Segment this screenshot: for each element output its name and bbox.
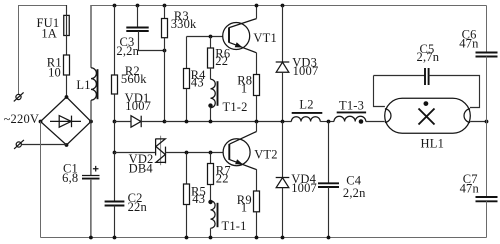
node rail VD3 top bbox=[281, 4, 285, 8]
node T1-2 bus bbox=[209, 120, 213, 124]
wire top-left mains horizontal bbox=[18, 5, 67, 7]
wire R6 to T1-2 bbox=[210, 68, 212, 79]
node R5 rail bbox=[185, 236, 189, 240]
label R3 330k bbox=[171, 9, 197, 31]
node T1-1 rail bbox=[209, 236, 213, 240]
node A2 diac junction bbox=[113, 151, 117, 155]
wire VT2 collector to bus bbox=[256, 122, 258, 132]
node C4 bus bbox=[327, 120, 331, 124]
svg-text:47n: 47n bbox=[460, 181, 480, 195]
svg-text:1007: 1007 bbox=[291, 181, 317, 195]
label R2 560k bbox=[121, 64, 147, 86]
wire C4 to rail bbox=[328, 187, 330, 238]
node T1-2 phase dot bbox=[208, 103, 212, 107]
node lamp right rail bbox=[485, 120, 489, 124]
node rail R3 top bbox=[163, 4, 167, 8]
label VD3 1007 bbox=[292, 55, 318, 78]
svg-text:DB4: DB4 bbox=[129, 161, 154, 175]
node T1-1 phase dot bbox=[208, 200, 212, 204]
wire C5 loop right bbox=[429, 76, 480, 108]
svg-text:VT2: VT2 bbox=[254, 147, 278, 161]
label FU1 1A bbox=[36, 16, 59, 40]
resistor R8 bbox=[254, 75, 260, 96]
wire rail to VD3 bbox=[282, 6, 284, 63]
wire bottom terminal to bridge bbox=[21, 144, 66, 146]
label C6 47n bbox=[459, 28, 479, 51]
svg-text:47n: 47n bbox=[459, 36, 479, 50]
winding T1-2 bbox=[211, 79, 218, 108]
inductor L1 bbox=[91, 68, 98, 100]
svg-text:2,2n: 2,2n bbox=[116, 44, 139, 58]
wire C2 bottom bbox=[114, 206, 116, 238]
diode VD3 bbox=[276, 62, 290, 72]
capacitor C3 bbox=[126, 28, 148, 32]
label R8 1 bbox=[237, 74, 252, 96]
svg-text:1007: 1007 bbox=[125, 99, 151, 113]
wire L2 to C4 node bbox=[320, 121, 334, 123]
label R7 22 bbox=[216, 164, 231, 186]
svg-text:2,7n: 2,7n bbox=[417, 50, 440, 64]
node C4 rail bbox=[327, 236, 331, 240]
wire right rail top bbox=[486, 6, 488, 53]
diode VD4 bbox=[276, 178, 290, 188]
wire R7 to T1-1 bbox=[210, 185, 212, 201]
wire R5 top bbox=[186, 153, 188, 185]
fuse FU1 bbox=[64, 15, 70, 35]
wire C5 loop left bbox=[374, 75, 426, 77]
capacitor C7 bbox=[476, 197, 498, 201]
transistor VT1 bbox=[223, 19, 257, 53]
wire VD3 to bus bbox=[282, 72, 284, 121]
capacitor C4 bbox=[318, 183, 339, 187]
svg-text:1A: 1A bbox=[41, 26, 57, 40]
wire FU1 top stub bbox=[66, 5, 68, 15]
label C4 2,2n bbox=[343, 174, 366, 200]
wire R8 to bus bbox=[256, 96, 258, 122]
wire VD4 to rail bbox=[282, 188, 284, 238]
node VD3 bus bbox=[281, 120, 285, 124]
wire midpoint bus bbox=[165, 121, 292, 123]
wire T1-3 to lamp bbox=[366, 121, 385, 123]
wire T1-2 to bus bbox=[210, 108, 212, 122]
node midpoint R8 bbox=[255, 120, 259, 124]
wire L1 to top rail bbox=[90, 5, 92, 68]
node base R5 junction bbox=[185, 151, 189, 155]
node C2 bottom rail bbox=[113, 236, 117, 240]
inductor L2 bbox=[291, 113, 322, 122]
node rail C3 top bbox=[136, 4, 140, 8]
svg-text:22: 22 bbox=[215, 54, 228, 68]
svg-text:T1-3: T1-3 bbox=[339, 99, 364, 113]
transistor VT2 bbox=[223, 132, 256, 170]
label VD4 1007 bbox=[291, 172, 317, 195]
svg-text:22: 22 bbox=[216, 171, 229, 185]
label R1 10 bbox=[47, 55, 62, 79]
wire T1-1 to rail bbox=[210, 228, 212, 237]
node bridge AC top bbox=[65, 95, 69, 99]
terminal input top bbox=[14, 92, 24, 101]
label R9 1 bbox=[237, 193, 252, 215]
wire C1 bottom bbox=[90, 180, 92, 238]
label R5 43 bbox=[191, 184, 206, 206]
label C2 22n bbox=[128, 191, 148, 214]
node R9 rail bbox=[255, 236, 259, 240]
svg-text:~220V: ~220V bbox=[4, 112, 40, 126]
wire VT2 emitter to R9 bbox=[256, 169, 258, 191]
wire R2 to node A bbox=[114, 94, 116, 122]
wire base to R6 bbox=[210, 37, 212, 49]
svg-text:330k: 330k bbox=[171, 17, 197, 31]
wire left input drop bbox=[18, 6, 20, 95]
wire C4 top bbox=[328, 122, 330, 184]
wire rail to R3 bbox=[164, 6, 166, 19]
node A VD1 anode bbox=[113, 120, 117, 124]
wire R7 top bbox=[210, 153, 212, 164]
node base R6 junction bbox=[209, 35, 213, 39]
capacitor C5 bbox=[425, 68, 429, 85]
resistor R9 bbox=[254, 191, 260, 212]
svg-text:L2: L2 bbox=[299, 97, 313, 111]
wire R9 to rail bbox=[256, 212, 258, 238]
node bridge DC minus bbox=[39, 120, 43, 124]
svg-text:22n: 22n bbox=[128, 200, 148, 214]
label C1 6,8 bbox=[62, 162, 78, 186]
resistor R6 bbox=[208, 48, 214, 68]
wire base to R4 bbox=[186, 37, 188, 69]
wire VT1 base bbox=[187, 36, 223, 38]
node R3 bus bbox=[163, 120, 167, 124]
node rail R2 top bbox=[113, 4, 117, 8]
svg-text:2,2n: 2,2n bbox=[343, 186, 366, 200]
wire FU1 to R1 bbox=[66, 36, 68, 56]
node VT1 collector rail bbox=[255, 4, 259, 8]
winding T1-1 bbox=[211, 201, 218, 229]
resistor R3 bbox=[162, 19, 168, 38]
capacitor C2 bbox=[105, 202, 125, 206]
wire node A down bbox=[114, 122, 116, 153]
node base R7 junction bbox=[209, 151, 213, 155]
wire C1 top bbox=[90, 122, 92, 176]
lamp HL1 bbox=[385, 98, 471, 133]
wire top plus rail bbox=[91, 5, 487, 7]
svg-text:1007: 1007 bbox=[293, 64, 319, 78]
wire bottom rail bbox=[41, 237, 487, 239]
resistor R1 bbox=[64, 55, 70, 75]
resistor R7 bbox=[208, 164, 214, 185]
label C3 2,2n bbox=[116, 35, 139, 58]
capacitor C6 bbox=[476, 53, 498, 57]
capacitor C1 bbox=[82, 166, 100, 179]
label VD1 1007 bbox=[125, 91, 152, 113]
wire right rail bottom bbox=[486, 201, 488, 237]
resistor R5 bbox=[184, 184, 190, 205]
terminal input bottom bbox=[14, 140, 24, 149]
node bridge AC bottom bbox=[65, 143, 69, 147]
node C1 bottom rail bbox=[89, 236, 93, 240]
bridge rectifier diamond bbox=[41, 97, 92, 145]
svg-text:1: 1 bbox=[241, 201, 247, 215]
label R6 22 bbox=[215, 46, 230, 68]
node C3 R3 junction bbox=[163, 49, 167, 53]
svg-text:T1-2: T1-2 bbox=[223, 100, 248, 114]
node VD4 rail bbox=[281, 236, 285, 240]
svg-text:10: 10 bbox=[48, 66, 61, 80]
wire bridge plus to L1 bbox=[90, 100, 92, 121]
svg-text:43: 43 bbox=[192, 192, 205, 206]
wire rail to C3 bbox=[137, 6, 139, 28]
svg-text:L1: L1 bbox=[76, 78, 90, 92]
wire R1 to bridge bbox=[66, 75, 68, 97]
resistor R2 bbox=[112, 75, 118, 94]
wire lamp top-left pin bbox=[374, 76, 385, 107]
node bridge DC plus bbox=[89, 120, 93, 124]
svg-text:43: 43 bbox=[191, 75, 204, 89]
wire node A2 to C2 bbox=[114, 153, 116, 202]
node R4 bus bbox=[185, 120, 189, 124]
svg-text:T1-1: T1-1 bbox=[222, 219, 247, 233]
label VD2 DB4 bbox=[129, 152, 154, 175]
wire R3 to midpoint bus bbox=[164, 38, 166, 122]
node T1-3 phase dot bbox=[359, 119, 364, 124]
wire right rail middle bbox=[486, 57, 488, 198]
resistor R4 bbox=[184, 69, 190, 89]
svg-text:560k: 560k bbox=[121, 72, 147, 86]
svg-text:1: 1 bbox=[241, 81, 247, 95]
diac VD2 bbox=[115, 136, 223, 166]
wire C3 bottom elbow bbox=[139, 31, 165, 51]
wire VD4 top bbox=[282, 122, 284, 178]
diode VD1 bbox=[115, 116, 165, 128]
svg-text:VT1: VT1 bbox=[253, 31, 277, 45]
wire R5 to rail bbox=[186, 205, 188, 238]
label C5 2,7n bbox=[417, 42, 440, 64]
wire rail to R2 bbox=[114, 6, 116, 76]
winding T1-3 bbox=[334, 112, 366, 121]
label C7 47n bbox=[460, 172, 480, 195]
wire DC minus drop bbox=[40, 122, 42, 238]
label R4 43 bbox=[191, 68, 207, 90]
wire VT1 emitter to R8 bbox=[256, 53, 258, 75]
svg-text:6,8: 6,8 bbox=[62, 171, 78, 185]
svg-text:HL1: HL1 bbox=[421, 137, 445, 151]
wire R4 to bus bbox=[186, 89, 188, 122]
wire lamp right pin to rail bbox=[470, 121, 486, 123]
wire VT1 collector to rail bbox=[256, 6, 258, 19]
